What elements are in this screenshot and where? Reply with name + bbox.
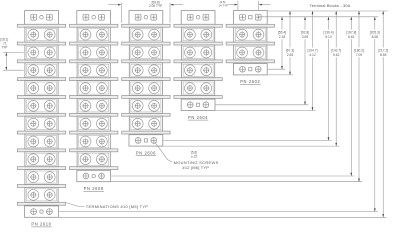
PN 2608 terminal row 3 body	[77, 63, 110, 78]
PN 2606 barrier rail 1	[122, 42, 170, 45]
PN 2610 terminal row 2 body	[25, 45, 58, 60]
PN 2606 row 4 screws	[132, 83, 143, 94]
PN 2606 barrier rail 4	[122, 96, 170, 99]
PN 2606 terminal row 6 body	[129, 116, 162, 131]
svg-text:7.09: 7.09	[356, 53, 363, 57]
terminal block strip PN 2602	[226, 11, 274, 75]
lower datum reference line (top mounting hole)	[259, 16, 379, 18]
PN 2604 terminal row 2 body	[182, 45, 215, 60]
PN 2606 terminal row 2 body	[129, 45, 162, 60]
PN 2606 barrier rail 0	[122, 24, 170, 27]
PN 2602 row 1 screws	[237, 29, 248, 40]
PN 2604 row 3 screws	[185, 65, 196, 76]
terminal block strip PN 2610	[17, 11, 65, 218]
PN 2610 barrier rail 6	[17, 131, 65, 134]
PN 2610 barrier rail 9	[17, 185, 65, 188]
svg-text:[217.2]: [217.2]	[378, 48, 388, 52]
hole size note [5.6] dia .22	[191, 151, 198, 159]
PN 2604 terminal row 4 body	[182, 81, 215, 96]
PN 2606 barrier rail 3	[122, 78, 170, 81]
PN 2608 row 1 screws	[80, 29, 91, 40]
PN 2608 terminal row 7 body	[77, 134, 110, 149]
svg-text:[55.4]: [55.4]	[278, 30, 286, 34]
PN 2610 mounting holes	[31, 209, 37, 215]
svg-text:PN 2606: PN 2606	[136, 150, 156, 155]
PN 2608 row 7 screws	[80, 136, 91, 147]
PN 2602 bottom end view	[233, 64, 267, 75]
dimension line [67.3] 2.65 (overall length PN 2602)	[284, 11, 297, 75]
PN 2608 terminal row 6 body	[77, 116, 110, 131]
PN 2610 barrier rail 0	[17, 24, 65, 27]
svg-text:2.65: 2.65	[287, 53, 294, 57]
PN 2610 terminal row 4 body	[25, 81, 58, 96]
PN 2604 terminal row 3 body	[182, 63, 215, 78]
PN 2604 terminal row 1 body	[182, 27, 215, 42]
PN 2608 barrier rail 2	[70, 60, 118, 63]
svg-text:PN 2604: PN 2604	[188, 115, 208, 120]
extension lines from PN 2606 bottom	[163, 139, 331, 141]
svg-text:TERMINATIONS #10 [M5] TYP: TERMINATIONS #10 [M5] TYP	[86, 204, 148, 209]
PN 2606 top end view	[129, 11, 163, 25]
leader to mounting screw hole	[155, 142, 173, 162]
PN 2608 top end view	[77, 11, 111, 25]
terminal block strip PN 2608	[70, 11, 118, 182]
extension lines from PN 2602 bottom	[268, 68, 286, 70]
PN 2610 bottom end view	[25, 206, 59, 217]
PN 2610 row 5 screws	[28, 100, 39, 111]
PN 2608 terminal row 2 body	[77, 45, 110, 60]
PN 2610 barrier rail 1	[17, 42, 65, 45]
PN 2608 barrier rail 6	[70, 131, 118, 134]
PN 2610 terminal row 10 body	[25, 187, 58, 202]
dimension line [92.8] 3.65 (mounting centers PN 2604)	[299, 17, 312, 105]
PN 2604 barrier rail 2	[174, 60, 222, 63]
part number label PN 2606	[136, 150, 156, 155]
svg-text:5.13: 5.13	[325, 35, 332, 39]
svg-text:3.65: 3.65	[302, 35, 309, 39]
svg-text:[130.4]: [130.4]	[323, 30, 333, 34]
PN 2608 row 4 screws	[80, 83, 91, 94]
PN 2610 terminal row 8 body	[25, 152, 58, 167]
PN 2604 barrier rail 1	[174, 42, 222, 45]
PN 2604 mounting holes	[187, 102, 193, 108]
PN 2606 barrier rail 5	[122, 113, 170, 116]
terminal block strip PN 2604	[174, 11, 222, 111]
PN 2602 barrier rail 0	[226, 24, 274, 27]
PN 2606 mounting holes	[135, 138, 141, 144]
pitch dimension [18.1] .71 TYP	[0, 38, 23, 70]
PN 2606 barrier rail 6	[122, 131, 170, 134]
PN 2606 row 3 screws	[132, 65, 143, 76]
PN 2602 terminal row 1 body	[234, 27, 267, 42]
svg-text:[167.8]: [167.8]	[346, 30, 356, 34]
svg-text:2.00 TYP: 2.00 TYP	[149, 4, 162, 8]
PN 2610 row 4 screws	[28, 83, 39, 94]
PN 2608 barrier rail 7	[70, 149, 118, 152]
dimension line [142.7] 5.62 (overall length PN 2606)	[330, 11, 343, 146]
svg-text:PN 2602: PN 2602	[240, 79, 260, 84]
PN 2610 barrier rail 5	[17, 113, 65, 116]
svg-text:5.62: 5.62	[333, 53, 340, 57]
dimension line [104.7] 4.12 (overall length PN 2604)	[306, 11, 319, 111]
PN 2602 mounting holes	[240, 66, 246, 72]
width dimension [50.8] 2.00 TYP over PN 2606	[108, 0, 183, 23]
PN 2608 row 6 screws	[80, 118, 91, 129]
terminal block strip PN 2606	[122, 11, 170, 146]
svg-text:PN 2608: PN 2608	[84, 186, 104, 191]
PN 2602 top end view	[233, 11, 267, 25]
PN 2608 barrier rail 3	[70, 78, 118, 81]
PN 2610 terminal row 1 body	[25, 27, 58, 42]
svg-text:Terminal Blocks - 30A: Terminal Blocks - 30A	[310, 3, 351, 8]
part number label PN 2602	[240, 79, 260, 84]
extension lines from PN 2604 bottom	[216, 104, 309, 106]
PN 2604 barrier rail 4	[174, 96, 222, 99]
svg-text:[67.3]: [67.3]	[286, 48, 294, 52]
PN 2606 row 1 screws	[132, 29, 143, 40]
upper datum reference line (block tops)	[268, 10, 388, 12]
PN 2610 barrier rail 3	[17, 78, 65, 81]
extension lines from PN 2608 bottom	[111, 175, 354, 177]
PN 2610 barrier rail 4	[17, 96, 65, 99]
PN 2608 bottom end view	[77, 170, 111, 181]
svg-text:8.08: 8.08	[372, 35, 379, 39]
PN 2602 terminal row 2 body	[234, 45, 267, 60]
PN 2610 terminal row 9 body	[25, 170, 58, 185]
svg-text:[104.7]: [104.7]	[307, 48, 317, 52]
PN 2606 bottom end view	[129, 135, 163, 146]
svg-text:4.12: 4.12	[309, 53, 316, 57]
PN 2606 terminal row 4 body	[129, 81, 162, 96]
dimension line [55.4] 2.18 (mounting centers PN 2602)	[276, 17, 289, 69]
PN 2606 terminal row 1 body	[129, 27, 162, 42]
PN 2610 terminal row 6 body	[25, 116, 58, 131]
svg-text:[205.3]: [205.3]	[370, 30, 380, 34]
part number label PN 2610	[31, 222, 51, 227]
PN 2610 row 1 screws	[28, 29, 39, 40]
part number label PN 2604	[188, 115, 208, 120]
PN 2608 terminal row 4 body	[77, 81, 110, 96]
PN 2604 row 4 screws	[185, 83, 196, 94]
PN 2610 barrier rail 8	[17, 167, 65, 170]
svg-text:#12 [M6] TYP: #12 [M6] TYP	[182, 165, 209, 170]
PN 2608 row 5 screws	[80, 100, 91, 111]
gap dimension [3.6] .14 TYP over PN 2602	[218, 0, 271, 10]
PN 2610 row 7 screws	[28, 136, 39, 147]
extension lines from PN 2610 bottom	[59, 211, 378, 213]
PN 2610 terminal row 7 body	[25, 134, 58, 149]
PN 2608 mounting holes	[83, 173, 89, 179]
PN 2604 row 1 screws	[185, 29, 196, 40]
PN 2604 row 2 screws	[185, 47, 196, 58]
dimension line [205.3] 8.08 (mounting centers PN 2610)	[368, 17, 381, 212]
PN 2608 row 3 screws	[80, 65, 91, 76]
PN 2608 barrier rail 5	[70, 113, 118, 116]
PN 2610 terminal row 3 body	[25, 63, 58, 78]
svg-text:6.61: 6.61	[348, 35, 355, 39]
PN 2610 barrier rail 10	[17, 202, 65, 205]
PN 2608 terminal row 1 body	[77, 27, 110, 42]
svg-text:.14 TYP: .14 TYP	[218, 3, 228, 7]
PN 2608 barrier rail 4	[70, 96, 118, 99]
PN 2604 bottom end view	[181, 99, 215, 110]
PN 2606 terminal row 3 body	[129, 63, 162, 78]
PN 2608 barrier rail 1	[70, 42, 118, 45]
PN 2608 barrier rail 8	[70, 167, 118, 170]
PN 2608 terminal row 8 body	[77, 152, 110, 167]
PN 2610 row 9 screws	[28, 172, 39, 183]
PN 2606 terminal row 5 body	[129, 98, 162, 113]
svg-text:[180.2]: [180.2]	[354, 48, 364, 52]
PN 2606 row 6 screws	[132, 118, 143, 129]
svg-text:8.55: 8.55	[380, 53, 387, 57]
PN 2610 barrier rail 7	[17, 149, 65, 152]
PN 2608 row 2 screws	[80, 47, 91, 58]
mounting screws note	[174, 160, 219, 170]
PN 2606 row 5 screws	[132, 100, 143, 111]
PN 2610 row 8 screws	[28, 154, 39, 165]
PN 2602 row 2 screws	[237, 47, 248, 58]
svg-text:⌀.22: ⌀.22	[191, 154, 198, 158]
PN 2606 row 2 screws	[132, 47, 143, 58]
PN 2602 barrier rail 2	[226, 60, 274, 63]
PN 2604 top end view	[181, 11, 215, 25]
dimension line [130.4] 5.13 (mounting centers PN 2606)	[322, 17, 335, 141]
svg-text:TYP: TYP	[1, 45, 7, 49]
svg-text:PN 2610: PN 2610	[31, 222, 51, 227]
part number label PN 2608	[84, 186, 104, 191]
dimension line [180.2] 7.09 (overall length PN 2608)	[353, 11, 366, 182]
PN 2610 terminal row 5 body	[25, 98, 58, 113]
PN 2610 row 10 screws	[28, 190, 39, 201]
PN 2608 row 8 screws	[80, 154, 91, 165]
PN 2604 barrier rail 0	[174, 24, 222, 27]
PN 2610 row 6 screws	[28, 118, 39, 129]
PN 2608 terminal row 5 body	[77, 98, 110, 113]
svg-text:2.18: 2.18	[279, 35, 286, 39]
PN 2604 barrier rail 3	[174, 78, 222, 81]
dimension line [167.8] 6.61 (mounting centers PN 2608)	[345, 17, 358, 176]
svg-text:[92.8]: [92.8]	[301, 30, 309, 34]
PN 2602 barrier rail 1	[226, 42, 274, 45]
PN 2606 barrier rail 2	[122, 60, 170, 63]
svg-text:[142.7]: [142.7]	[331, 48, 341, 52]
PN 2610 row 2 screws	[28, 47, 39, 58]
leader from PN 2610 rail to terminations note	[66, 203, 84, 207]
PN 2610 top end view	[25, 11, 59, 25]
PN 2610 row 3 screws	[28, 65, 39, 76]
PN 2608 barrier rail 0	[70, 24, 118, 27]
PN 2610 barrier rail 2	[17, 60, 65, 63]
dimension line [217.2] 8.55 (overall length PN 2610)	[377, 11, 390, 217]
